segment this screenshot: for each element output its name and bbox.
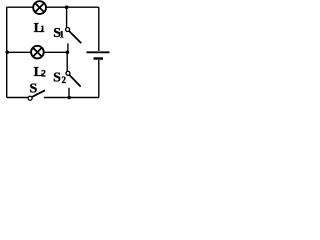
switch S1: pivot circle (66, 28, 70, 32)
switch S (bottom): pivot circle (28, 96, 32, 100)
wire: left side (6, 7, 8, 97)
lamp L1 (33, 1, 46, 14)
junction node: top of S1 (65, 5, 69, 9)
svg-text:2: 2 (62, 75, 67, 85)
svg-text:S: S (53, 70, 61, 85)
wire: right side below battery (98, 60, 100, 98)
wire: bottom right segment (44, 97, 99, 99)
svg-text:2: 2 (41, 68, 46, 78)
wire: top (left corner to S1 junction to top-right corner) (7, 6, 99, 8)
battery: long plate (positive) (87, 51, 110, 53)
switch S1: upper wire (66, 7, 68, 27)
switch S1: lower wire (67, 43, 69, 52)
svg-text:1: 1 (60, 30, 65, 40)
junction node: middle wire / S1-S2 (66, 51, 70, 55)
wire: right side above battery (98, 7, 100, 51)
svg-text:1: 1 (40, 24, 45, 34)
switch S (bottom): blade (32, 90, 45, 97)
lamp L2 (31, 46, 44, 59)
wire: middle row (left wire to S junction) (7, 51, 68, 53)
junction node: bottom of S2 (67, 96, 71, 100)
background (0, 0, 112, 105)
junction node: left wire / middle wire (5, 51, 9, 55)
wire: bottom left segment (7, 97, 29, 99)
switch S2: upper wire (66, 52, 68, 71)
battery: short plate (negative) (94, 57, 104, 59)
svg-text:S: S (30, 82, 38, 97)
switch S2: lower wire (68, 88, 70, 98)
switch S2: blade (69, 75, 81, 87)
switch S2: pivot circle (66, 71, 70, 75)
switch S1: blade (69, 31, 81, 43)
